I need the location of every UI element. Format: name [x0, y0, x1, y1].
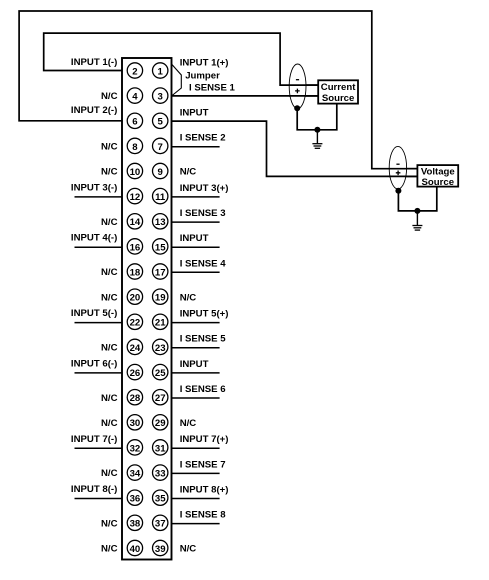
svg-text:I SENSE 5: I SENSE 5 — [180, 334, 227, 345]
svg-text:N/C: N/C — [101, 393, 118, 404]
svg-text:N/C: N/C — [180, 167, 197, 178]
terminal line pin 33 — [172, 472, 220, 474]
current source plus sign — [295, 89, 300, 94]
terminal line pin 12 — [75, 196, 123, 198]
svg-text:Source: Source — [322, 93, 355, 104]
terminal line pin 35 — [172, 498, 220, 500]
pin 27 — [153, 390, 168, 405]
svg-text:21: 21 — [155, 318, 166, 329]
svg-text:9: 9 — [158, 167, 163, 178]
svg-text:20: 20 — [130, 293, 141, 304]
terminal line pin 13 — [172, 221, 220, 223]
svg-text:1: 1 — [158, 66, 164, 77]
pin 12 — [127, 188, 142, 203]
svg-text:N/C: N/C — [180, 544, 197, 555]
svg-text:INPUT 1(+): INPUT 1(+) — [180, 57, 229, 68]
current source negative terminal wire segment through ellipse — [289, 84, 318, 86]
pin 35 — [153, 490, 168, 505]
jumper bracket between pin 1 and pin 3 — [172, 64, 182, 96]
svg-text:I SENSE 8: I SENSE 8 — [180, 510, 227, 521]
pin 13 — [153, 214, 168, 229]
svg-text:N/C: N/C — [101, 418, 118, 429]
pin 32 — [127, 440, 142, 455]
pin 7 — [153, 138, 168, 153]
terminal line pin 16 — [75, 246, 123, 248]
svg-text:12: 12 — [130, 192, 141, 203]
svg-text:N/C: N/C — [101, 343, 118, 354]
svg-text:5: 5 — [158, 117, 164, 128]
terminal line pin 21 — [172, 322, 220, 324]
pin 3 — [153, 88, 168, 103]
pin 21 — [153, 314, 168, 329]
terminal line pin 22 — [75, 322, 123, 324]
terminal line pin 17 — [172, 271, 220, 273]
svg-text:24: 24 — [130, 343, 141, 354]
svg-text:27: 27 — [155, 393, 166, 404]
pin 34 — [127, 465, 142, 480]
svg-text:INPUT 5(-): INPUT 5(-) — [71, 308, 117, 319]
svg-text:38: 38 — [130, 519, 141, 530]
svg-text:I SENSE 1: I SENSE 1 — [189, 82, 236, 93]
junction dot at voltage source ellipse bottom — [395, 188, 401, 194]
svg-text:40: 40 — [130, 544, 141, 555]
terminal line pin 23 — [172, 347, 220, 349]
svg-text:INPUT 3(-): INPUT 3(-) — [71, 182, 117, 193]
svg-text:19: 19 — [155, 293, 166, 304]
voltage source minus sign — [396, 163, 399, 165]
pin 4 — [127, 88, 142, 103]
svg-text:Current: Current — [321, 82, 356, 93]
svg-text:N/C: N/C — [101, 142, 118, 153]
svg-text:16: 16 — [130, 242, 141, 253]
svg-text:INPUT 7(-): INPUT 7(-) — [71, 434, 117, 445]
pin 17 — [153, 264, 168, 279]
pin 9 — [153, 163, 168, 178]
svg-text:23: 23 — [155, 343, 166, 354]
svg-text:INPUT 1(-): INPUT 1(-) — [71, 57, 117, 68]
svg-text:N/C: N/C — [101, 167, 118, 178]
pin 38 — [127, 515, 142, 530]
terminal line pin 37 — [172, 523, 220, 525]
svg-text:N/C: N/C — [180, 418, 197, 429]
pin 23 — [153, 339, 168, 354]
svg-text:N/C: N/C — [101, 217, 118, 228]
wire I SENSE 1 pin 3 to current source positive terminal — [172, 95, 319, 97]
terminal line pin 36 — [75, 498, 123, 500]
svg-text:I SENSE 2: I SENSE 2 — [180, 133, 226, 144]
svg-text:INPUT 8(+): INPUT 8(+) — [180, 485, 229, 496]
svg-text:I SENSE 3: I SENSE 3 — [180, 208, 226, 219]
svg-text:I SENSE 7: I SENSE 7 — [180, 459, 226, 470]
svg-text:17: 17 — [155, 267, 166, 278]
svg-text:INPUT 4(-): INPUT 4(-) — [71, 233, 117, 244]
ground symbol for voltage source — [412, 211, 422, 230]
svg-text:11: 11 — [155, 192, 166, 203]
pin 15 — [153, 239, 168, 254]
pin 28 — [127, 390, 142, 405]
svg-text:N/C: N/C — [180, 292, 197, 303]
svg-text:N/C: N/C — [101, 518, 118, 529]
terminal line pin 26 — [75, 372, 123, 374]
svg-text:INPUT 7(+): INPUT 7(+) — [180, 434, 229, 445]
terminal line pin 11 — [172, 196, 220, 198]
svg-text:INPUT 8(-): INPUT 8(-) — [71, 484, 117, 495]
svg-text:Jumper: Jumper — [185, 70, 220, 81]
connector block (40-pin header) — [122, 58, 172, 560]
svg-text:N/C: N/C — [101, 292, 118, 303]
wire from INPUT 2(-) pin 6 up over the top to voltage source negative terminal — [19, 11, 417, 169]
pin 20 — [127, 289, 142, 304]
svg-text:28: 28 — [130, 393, 141, 404]
pin 29 — [153, 415, 168, 430]
wire INPUT pin 5 to voltage source positive terminal — [172, 121, 418, 176]
svg-text:INPUT 3(+): INPUT 3(+) — [180, 183, 229, 194]
wire voltage source bottom to ground and voltage source box bottom — [398, 186, 436, 211]
junction dot at current source ground node — [314, 127, 320, 133]
svg-text:Voltage: Voltage — [421, 166, 455, 177]
pin 22 — [127, 314, 142, 329]
terminal line pin 25 — [172, 372, 220, 374]
pin 5 — [153, 113, 168, 128]
svg-text:N/C: N/C — [101, 544, 118, 555]
pin 25 — [153, 364, 168, 379]
pin 33 — [153, 465, 168, 480]
pin 26 — [127, 364, 142, 379]
pin 18 — [127, 264, 142, 279]
svg-text:35: 35 — [155, 494, 166, 505]
pin 36 — [127, 490, 142, 505]
current source minus sign — [296, 79, 299, 81]
svg-text:Source: Source — [422, 177, 455, 188]
svg-text:25: 25 — [155, 368, 166, 379]
pin 19 — [153, 289, 168, 304]
svg-text:15: 15 — [155, 242, 166, 253]
svg-text:INPUT: INPUT — [180, 233, 209, 244]
svg-text:4: 4 — [132, 92, 138, 103]
svg-text:7: 7 — [158, 142, 163, 153]
svg-text:18: 18 — [130, 267, 141, 278]
pin 10 — [127, 163, 142, 178]
pin 37 — [153, 515, 168, 530]
pin 40 — [127, 540, 142, 555]
pin 8 — [127, 138, 142, 153]
svg-text:INPUT: INPUT — [180, 359, 209, 370]
pin 24 — [127, 339, 142, 354]
pin 14 — [127, 214, 142, 229]
current source positive terminal wire segment through ellipse — [289, 95, 318, 97]
terminal line pin 15 — [172, 246, 220, 248]
svg-text:I SENSE 6: I SENSE 6 — [180, 384, 226, 395]
terminal line pin 27 — [172, 397, 220, 399]
svg-text:I SENSE 4: I SENSE 4 — [180, 258, 227, 269]
pin 6 — [127, 113, 142, 128]
svg-text:INPUT: INPUT — [180, 108, 209, 119]
current source CS1 ellipse symbol — [289, 64, 306, 109]
svg-text:INPUT 5(+): INPUT 5(+) — [180, 309, 229, 320]
terminal line pin 32 — [75, 447, 123, 449]
pin 1 — [153, 63, 168, 78]
svg-text:36: 36 — [130, 494, 141, 505]
svg-text:26: 26 — [130, 368, 141, 379]
pin 11 — [153, 188, 168, 203]
svg-text:N/C: N/C — [101, 267, 118, 278]
svg-text:22: 22 — [130, 318, 141, 329]
pin 31 — [153, 440, 168, 455]
svg-text:2: 2 — [132, 66, 137, 77]
svg-text:10: 10 — [130, 167, 141, 178]
pin 2 — [127, 63, 142, 78]
pin 30 — [127, 415, 142, 430]
svg-text:34: 34 — [130, 469, 141, 480]
svg-text:32: 32 — [130, 443, 141, 454]
svg-text:31: 31 — [155, 443, 166, 454]
svg-text:14: 14 — [130, 217, 141, 228]
svg-text:29: 29 — [155, 418, 166, 429]
wire from INPUT 1(-) pin 2 up over the top to current source negative terminal — [44, 33, 319, 85]
svg-text:6: 6 — [132, 117, 137, 128]
voltage source box — [417, 165, 458, 187]
current source box — [318, 80, 358, 103]
svg-text:8: 8 — [132, 142, 138, 153]
ground symbol for current source — [312, 130, 322, 149]
junction dot at current source ellipse bottom — [294, 105, 300, 111]
svg-text:N/C: N/C — [101, 468, 118, 479]
pin 39 — [153, 540, 168, 555]
junction dot at voltage source ground node — [414, 208, 420, 214]
svg-text:INPUT 6(-): INPUT 6(-) — [71, 358, 117, 369]
svg-text:13: 13 — [155, 217, 166, 228]
svg-text:37: 37 — [155, 519, 166, 530]
pin 16 — [127, 239, 142, 254]
svg-text:3: 3 — [158, 92, 163, 103]
svg-text:33: 33 — [155, 469, 166, 480]
svg-text:N/C: N/C — [101, 91, 118, 102]
voltage source VS1 ellipse symbol — [389, 146, 406, 189]
voltage source positive terminal wire segment through ellipse — [389, 175, 417, 177]
terminal line pin 7 — [172, 146, 220, 148]
svg-text:39: 39 — [155, 544, 166, 555]
wire current source bottom to ground and current source box bottom — [297, 104, 337, 130]
voltage source plus sign — [396, 171, 401, 176]
voltage source negative terminal wire segment through ellipse — [389, 168, 417, 170]
svg-text:INPUT 2(-): INPUT 2(-) — [71, 105, 117, 116]
svg-text:30: 30 — [130, 418, 141, 429]
terminal line pin 31 — [172, 447, 220, 449]
